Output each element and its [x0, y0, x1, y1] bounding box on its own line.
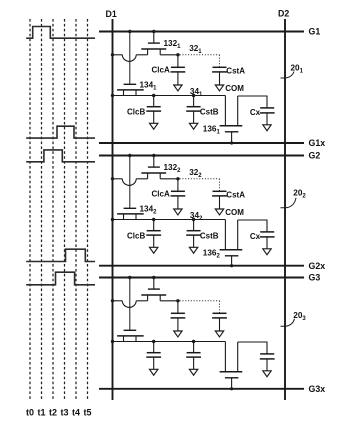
wire crossover hump over gate feed line: [122, 301, 136, 308]
transistor 132_3 source lead: [147, 295, 149, 301]
wire node 34_1 turn down to transistor 136_1 left terminal: [224, 96, 226, 126]
transistor 132_2 gate bar: [148, 166, 160, 168]
svg-text:ClcB: ClcB: [127, 108, 145, 117]
transistor 136_2 gate bar: [225, 255, 239, 257]
svg-text:COM: COM: [225, 84, 244, 93]
transistor 136_3 channel bar: [220, 371, 243, 373]
capacitor ClcA (cell 3): [171, 301, 186, 331]
junction dot 136_3 stub on G3x: [230, 387, 233, 390]
wire transistor 136_1 to capacitor Cx: [238, 96, 267, 108]
capacitor ClcB (cell 3): [146, 342, 161, 370]
transistor 134_1 drain lead: [135, 90, 137, 96]
ground symbol (COM) below CstA: [215, 85, 223, 91]
junction dot node 32_2 at ClcA tap: [176, 177, 179, 180]
ground symbol below CstB: [189, 123, 197, 129]
waveform for G1x (pulse t2-t4): [26, 126, 95, 138]
transistor 134_2 drain lead: [135, 214, 137, 220]
junction dot node 34_3 at CstB tap: [192, 340, 195, 343]
capacitor ClcB (cell 1): [146, 96, 161, 124]
transistor 134_1 channel bar: [117, 89, 144, 91]
gate line G1x: [99, 142, 304, 144]
transistor 136_3 gate stub to G3x: [231, 378, 233, 389]
time marker line t2 (vertical dashed): [52, 19, 54, 400]
transistor 136_1 right terminal lead: [237, 96, 239, 126]
capacitor CstA plates and lead: [212, 313, 227, 331]
transistor 134_1 gate bar: [124, 83, 137, 85]
junction dot node 32_3 at ClcA tap: [176, 299, 179, 302]
svg-text:D2: D2: [278, 9, 289, 19]
junction dot 136_2 stub on G2x: [230, 264, 233, 267]
capacitor CstB (cell 3): [186, 342, 201, 370]
gate line G2: [99, 155, 304, 157]
node 34_2 wire (D1 to 136): [113, 219, 226, 221]
transistor 132_3 gate bar: [148, 288, 160, 290]
junction dot D1 x source wire: [111, 53, 114, 56]
svg-text:ClcB: ClcB: [127, 232, 145, 241]
transistor 134_3 gate bar: [124, 329, 137, 331]
ground symbol below ClcB: [150, 369, 158, 375]
transistor 132_3 gate stub: [153, 278, 155, 290]
wire D1 to transistor 132_3 source (node at y=300.8): [113, 300, 123, 302]
svg-text:t5: t5: [83, 408, 91, 418]
leader arc for reference 20_1: [281, 72, 295, 79]
capacitor ClcA (cell 1): [171, 55, 186, 85]
capacitor CstA (cell 2) dotted lead: [219, 179, 221, 192]
svg-text:t1: t1: [37, 408, 45, 418]
transistor 134_2 source lead: [123, 214, 125, 220]
node 32_1 wire (132 drain to ClcA): [160, 54, 178, 56]
node 32_3 wire (132 drain to ClcA): [160, 300, 178, 302]
wire gate feed from G3 down to transistor 134_3 gate: [129, 278, 131, 331]
transistor 136_1 gate bar: [225, 131, 239, 133]
svg-text:G2: G2: [309, 151, 321, 161]
capacitor ClcB (cell 2): [146, 220, 161, 248]
transistor 136_1 channel bar: [220, 125, 243, 127]
svg-text:t3: t3: [60, 408, 68, 418]
svg-text:322: 322: [189, 168, 202, 179]
ground symbol below CstB: [189, 369, 197, 375]
ground symbol below ClcA: [174, 209, 182, 215]
capacitor Cx (cell 2): [260, 232, 275, 249]
svg-text:G1: G1: [309, 27, 321, 37]
gate line G2x: [99, 265, 304, 267]
transistor 132_2 drain lead: [159, 173, 161, 179]
ground symbol below ClcA: [174, 331, 182, 337]
junction dot on gate line at 132_2 stub: [152, 154, 155, 157]
waveform for G3 (pulse t2-t4): [26, 272, 95, 285]
svg-text:G1x: G1x: [309, 138, 326, 148]
transistor 134_2 channel bar: [117, 213, 144, 215]
ground symbol below ClcB: [150, 247, 158, 253]
svg-text:ClcA: ClcA: [152, 189, 170, 198]
svg-text:321: 321: [189, 44, 202, 55]
svg-text:201: 201: [291, 63, 304, 74]
wire node 34_2 turn down to transistor 136_2 left terminal: [224, 220, 226, 250]
transistor 134_1 source lead: [123, 90, 125, 96]
svg-text:Cx: Cx: [250, 232, 261, 241]
svg-text:G3: G3: [309, 273, 321, 283]
transistor 134_3 drain lead: [135, 336, 137, 342]
wire gate feed from G2 down to transistor 134_2 gate: [129, 156, 131, 209]
capacitor CstB (cell 1): [186, 96, 201, 124]
transistor 132_1 channel bar: [141, 48, 166, 50]
svg-text:D1: D1: [106, 9, 117, 19]
junction dot node 34_2 at ClcB tap: [152, 218, 155, 221]
time marker line t4 (vertical dashed): [75, 19, 77, 400]
svg-text:G3x: G3x: [309, 384, 326, 394]
capacitor ClcA (cell 2): [171, 179, 186, 209]
transistor 136_2 right terminal lead: [237, 220, 239, 250]
capacitor CstA (cell 3) dotted lead: [219, 301, 221, 314]
capacitor CstA plates and lead: [212, 191, 227, 209]
junction dot D1 x source wire: [111, 299, 114, 302]
transistor 132_2 gate stub: [153, 156, 155, 168]
leader arc for reference 20_2: [281, 198, 297, 208]
ground symbol below Cx: [263, 125, 271, 131]
capacitor Cx (cell 3): [260, 354, 275, 371]
transistor 132_1 drain lead: [159, 49, 161, 55]
junction dot D1 x source wire: [111, 177, 114, 180]
transistor 136_2 gate stub to G2x: [231, 256, 233, 266]
junction dot on gate line at 132_3 stub: [152, 276, 155, 279]
wire node 34_3 turn down to transistor 136_3 left terminal: [224, 342, 226, 372]
wire gate feed from G1 down to transistor 134_1 gate: [129, 32, 131, 85]
junction dot on gate line at gate feed: [128, 276, 131, 279]
transistor 132_1 source lead: [147, 49, 149, 55]
junction dot node 34_1 at ClcB tap: [152, 94, 155, 97]
wire D1 to transistor 132_2 source (node at y=178.8): [113, 178, 123, 180]
gate line G3x: [99, 388, 304, 390]
time marker line t0 (vertical dashed): [29, 19, 31, 400]
transistor 132_1 gate bar: [148, 42, 160, 44]
ground symbol below Cx: [263, 371, 271, 377]
transistor 136_3 gate bar: [225, 377, 239, 379]
svg-text:202: 202: [293, 188, 306, 199]
svg-text:Cx: Cx: [250, 108, 261, 117]
junction dot 136_1 stub on G1x: [230, 141, 233, 144]
junction dot D1 x node 34_1: [111, 94, 114, 97]
time marker line t1 (vertical dashed): [41, 19, 43, 400]
svg-text:1361: 1361: [203, 124, 221, 135]
svg-text:CstB: CstB: [200, 108, 219, 117]
svg-text:t0: t0: [26, 408, 34, 418]
waveform for G2 (pulse t1-t3): [26, 150, 95, 162]
transistor 132_2 source lead: [147, 173, 149, 179]
data line D2: [284, 19, 286, 400]
node 34_1 wire (D1 to 136): [113, 95, 226, 97]
svg-text:ClcA: ClcA: [152, 65, 170, 74]
transistor 132_3 drain lead: [159, 295, 161, 301]
svg-text:341: 341: [190, 87, 203, 98]
wire crossover hump over gate feed line: [122, 55, 136, 62]
gate line G1: [99, 31, 304, 33]
wire transistor 136_2 to capacitor Cx: [238, 220, 267, 232]
svg-text:CstB: CstB: [200, 232, 219, 241]
svg-text:203: 203: [293, 311, 306, 322]
junction dot node 34_3 at ClcB tap: [152, 340, 155, 343]
ground symbol (COM) below CstA: [215, 331, 223, 337]
transistor 132_2 channel bar: [141, 172, 166, 174]
time marker line t3 (vertical dashed): [64, 19, 66, 400]
svg-text:G2x: G2x: [309, 261, 326, 271]
dotted wire node 32_2 to CstA: [180, 178, 220, 180]
ground symbol below Cx: [263, 249, 271, 255]
data line D1: [112, 19, 114, 400]
ground symbol (COM) below CstA: [215, 209, 223, 215]
ground symbol below CstB: [189, 247, 197, 253]
ground symbol below ClcA: [174, 85, 182, 91]
waveform for G2x (pulse t3-t5): [26, 249, 95, 261]
svg-text:1362: 1362: [203, 248, 221, 259]
svg-text:t2: t2: [49, 408, 57, 418]
wire hump to 132_1 source drop: [136, 54, 147, 56]
junction dot D1 x node 34_2: [111, 218, 114, 221]
capacitor CstA plates and lead: [212, 67, 227, 85]
capacitor CstB (cell 2): [186, 220, 201, 248]
svg-text:COM: COM: [225, 208, 244, 217]
svg-text:1322: 1322: [164, 163, 182, 174]
transistor 134_3 channel bar: [117, 335, 144, 337]
dotted wire node 32_1 to CstA: [180, 54, 220, 56]
transistor 132_3 channel bar: [141, 294, 166, 296]
node 32_2 wire (132 drain to ClcA): [160, 178, 178, 180]
ground symbol below ClcB: [150, 123, 158, 129]
svg-text:CstA: CstA: [226, 66, 245, 75]
capacitor CstA (cell 1) dotted lead: [219, 55, 221, 68]
transistor 136_3 right terminal lead: [237, 342, 239, 372]
junction dot node 34_1 at CstB tap: [192, 94, 195, 97]
leader arc for reference 20_3: [281, 319, 295, 327]
svg-text:1321: 1321: [164, 39, 182, 50]
node 34_3 wire (D1 to 136): [113, 341, 226, 343]
svg-text:CstA: CstA: [226, 190, 245, 199]
transistor 134_2 gate bar: [124, 207, 137, 209]
waveform for G1 (pulse t0-t2): [26, 27, 95, 39]
svg-text:t4: t4: [72, 408, 80, 418]
capacitor Cx (cell 1): [260, 108, 275, 125]
wire crossover hump over gate feed line: [122, 179, 136, 186]
dotted wire node 32_3 to CstA: [180, 300, 220, 302]
junction dot node 34_2 at CstB tap: [192, 218, 195, 221]
transistor 132_1 gate stub: [153, 32, 155, 44]
junction dot on gate line at 132_1 stub: [152, 30, 155, 33]
wire D1 to transistor 132_1 source (node at y=54.8): [113, 54, 123, 56]
transistor 134_3 source lead: [123, 336, 125, 342]
wire hump to 132_2 source drop: [136, 178, 147, 180]
junction dot on gate line at gate feed: [128, 30, 131, 33]
junction dot on gate line at gate feed: [128, 154, 131, 157]
junction dot D1 x node 34_3: [111, 340, 114, 343]
transistor 136_2 channel bar: [220, 249, 243, 251]
svg-text:342: 342: [190, 211, 203, 222]
junction dot node 32_1 at ClcA tap: [176, 53, 179, 56]
wire transistor 136_3 to capacitor Cx: [238, 342, 267, 354]
time marker line t5 (vertical dashed): [87, 19, 89, 400]
gate line G3: [99, 277, 304, 279]
transistor 136_1 gate stub to G1x: [231, 132, 233, 143]
wire hump to 132_3 source drop: [136, 300, 147, 302]
